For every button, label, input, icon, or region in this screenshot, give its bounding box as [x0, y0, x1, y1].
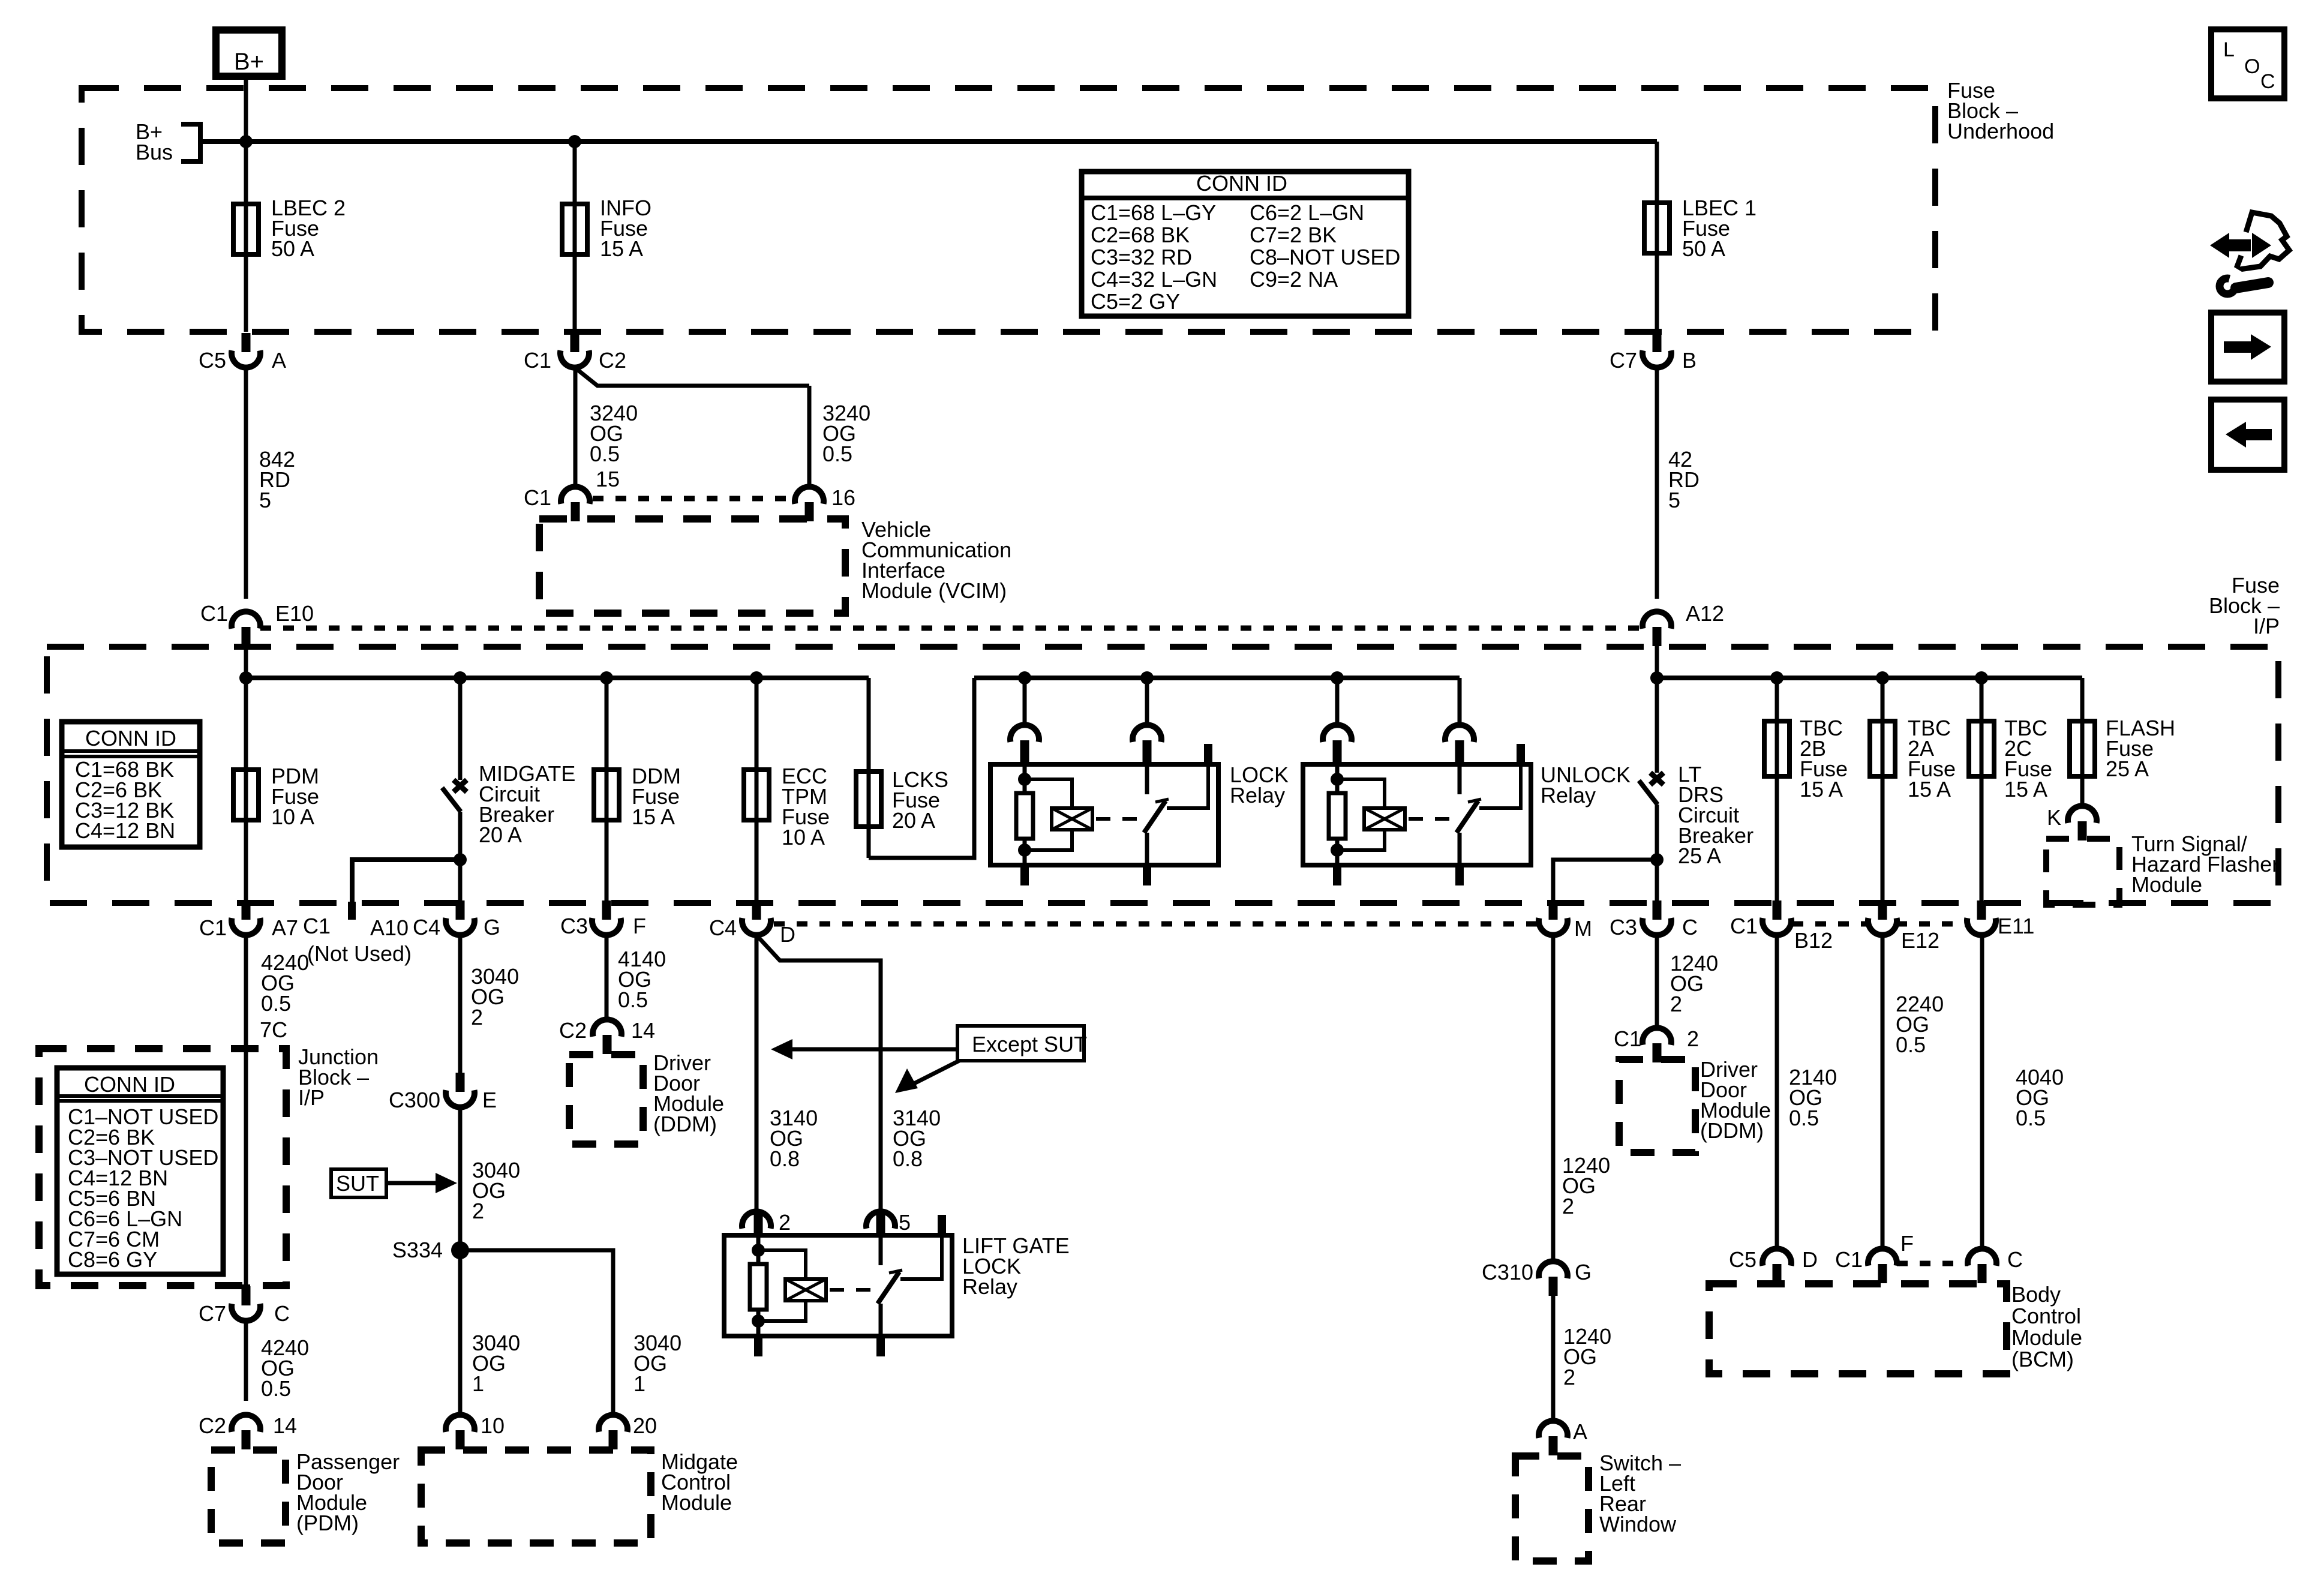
svg-text:0.5: 0.5	[590, 442, 620, 466]
svg-text:C3=32 RD: C3=32 RD	[1091, 245, 1192, 269]
svg-text:C2: C2	[199, 1413, 226, 1438]
svg-text:C300: C300	[389, 1088, 440, 1112]
svg-text:C5: C5	[1729, 1247, 1756, 1272]
svg-text:C7: C7	[199, 1301, 226, 1326]
svg-text:I/P: I/P	[298, 1085, 325, 1110]
svg-text:A7: A7	[272, 915, 298, 940]
svg-text:E12: E12	[1901, 928, 1939, 953]
svg-text:C2: C2	[559, 1018, 587, 1043]
svg-text:25 A: 25 A	[2106, 757, 2149, 781]
svg-text:C1: C1	[199, 915, 227, 940]
svg-text:2: 2	[1563, 1365, 1575, 1389]
svg-text:C1: C1	[200, 601, 228, 626]
svg-text:14: 14	[273, 1413, 297, 1438]
svg-text:2: 2	[779, 1210, 791, 1235]
svg-text:(Not Used): (Not Used)	[307, 941, 412, 966]
svg-text:K: K	[2047, 805, 2061, 830]
svg-text:O: O	[2244, 55, 2260, 78]
svg-text:C4: C4	[413, 915, 440, 939]
svg-text:0.8: 0.8	[770, 1146, 800, 1171]
svg-text:0.5: 0.5	[261, 1376, 291, 1401]
svg-text:C4=12 BN: C4=12 BN	[75, 818, 175, 843]
svg-text:I/P: I/P	[2253, 614, 2280, 638]
svg-text:C1=68 L–GY: C1=68 L–GY	[1091, 200, 1216, 225]
svg-text:15 A: 15 A	[1800, 777, 1843, 801]
svg-text:0.5: 0.5	[822, 442, 852, 466]
svg-text:2: 2	[1687, 1026, 1699, 1051]
svg-text:C7: C7	[1610, 348, 1637, 373]
svg-text:0.8: 0.8	[893, 1146, 923, 1171]
svg-text:C310: C310	[1482, 1260, 1533, 1284]
svg-text:C6=2 L–GN: C6=2 L–GN	[1250, 200, 1364, 225]
svg-text:Module (VCIM): Module (VCIM)	[861, 578, 1007, 603]
svg-text:Except SUT: Except SUT	[972, 1032, 1087, 1056]
svg-text:Body: Body	[2011, 1282, 2061, 1307]
svg-text:C3: C3	[560, 914, 588, 938]
svg-text:C5: C5	[199, 348, 226, 373]
svg-text:C8=6 GY: C8=6 GY	[68, 1247, 157, 1272]
svg-text:C4: C4	[709, 915, 737, 940]
svg-text:Underhood: Underhood	[1947, 119, 2054, 143]
svg-text:0.5: 0.5	[618, 987, 648, 1012]
svg-text:15 A: 15 A	[1908, 777, 1951, 801]
svg-text:CONN ID: CONN ID	[1196, 171, 1287, 196]
svg-text:Control: Control	[2011, 1304, 2081, 1328]
svg-text:5: 5	[259, 488, 271, 512]
svg-text:C9=2 NA: C9=2 NA	[1250, 267, 1338, 292]
svg-text:Relay: Relay	[1541, 783, 1596, 807]
svg-text:C: C	[2260, 70, 2275, 93]
svg-text:0.5: 0.5	[261, 991, 291, 1016]
svg-text:F: F	[633, 914, 646, 938]
svg-text:15: 15	[596, 467, 620, 491]
svg-text:20: 20	[633, 1413, 657, 1438]
svg-text:Bus: Bus	[136, 140, 173, 164]
svg-text:15 A: 15 A	[600, 236, 643, 261]
svg-text:Module: Module	[661, 1490, 732, 1515]
svg-text:C7=2 BK: C7=2 BK	[1250, 223, 1337, 247]
svg-text:10 A: 10 A	[782, 825, 825, 849]
svg-text:A10: A10	[370, 915, 409, 940]
svg-text:C: C	[2007, 1247, 2023, 1272]
svg-text:2: 2	[471, 1005, 483, 1029]
svg-text:50 A: 50 A	[1682, 236, 1725, 261]
svg-text:A: A	[1573, 1419, 1587, 1444]
svg-text:7C: 7C	[260, 1017, 287, 1042]
svg-text:CONN ID: CONN ID	[85, 726, 176, 751]
svg-text:E10: E10	[275, 601, 314, 626]
svg-text:20 A: 20 A	[892, 808, 935, 833]
svg-text:B12: B12	[1794, 928, 1833, 953]
svg-text:C1: C1	[524, 485, 551, 510]
svg-text:0.5: 0.5	[2016, 1106, 2046, 1130]
svg-text:C1: C1	[1835, 1247, 1863, 1272]
svg-text:5: 5	[899, 1210, 911, 1235]
svg-text:A12: A12	[1686, 601, 1724, 626]
svg-text:50 A: 50 A	[271, 236, 314, 261]
svg-text:1: 1	[472, 1371, 484, 1396]
svg-text:B: B	[1682, 348, 1697, 373]
svg-text:C2: C2	[599, 348, 626, 373]
svg-text:Relay: Relay	[1230, 783, 1285, 807]
svg-text:L: L	[2223, 38, 2235, 61]
svg-text:20 A: 20 A	[479, 822, 522, 847]
svg-text:Relay: Relay	[962, 1274, 1017, 1299]
svg-text:C4=32 L–GN: C4=32 L–GN	[1091, 267, 1217, 292]
svg-text:2: 2	[1670, 992, 1682, 1016]
svg-text:Window: Window	[1599, 1512, 1677, 1536]
svg-text:(DDM): (DDM)	[653, 1112, 717, 1136]
svg-text:0.5: 0.5	[1896, 1032, 1926, 1057]
svg-text:G: G	[484, 915, 500, 939]
svg-text:C1: C1	[303, 914, 331, 938]
svg-text:C2=68 BK: C2=68 BK	[1091, 223, 1190, 247]
svg-text:0.5: 0.5	[1789, 1106, 1819, 1130]
svg-text:F: F	[1900, 1231, 1914, 1256]
svg-text:Module: Module	[2011, 1325, 2082, 1350]
svg-text:15 A: 15 A	[632, 804, 675, 829]
svg-text:E: E	[482, 1088, 497, 1112]
svg-text:1: 1	[633, 1371, 645, 1396]
svg-text:Module: Module	[2131, 872, 2202, 897]
svg-text:10 A: 10 A	[271, 804, 314, 829]
svg-text:C8–NOT USED: C8–NOT USED	[1250, 245, 1400, 269]
svg-text:CONN ID: CONN ID	[84, 1072, 175, 1097]
svg-text:14: 14	[631, 1018, 655, 1043]
svg-text:B+: B+	[234, 49, 264, 75]
svg-text:15 A: 15 A	[2004, 777, 2047, 801]
svg-text:5: 5	[1668, 488, 1680, 512]
svg-text:M: M	[1574, 916, 1592, 941]
svg-text:C1: C1	[524, 348, 551, 373]
svg-text:D: D	[1802, 1247, 1818, 1272]
svg-text:(DDM): (DDM)	[1700, 1118, 1764, 1143]
svg-text:C: C	[274, 1301, 290, 1326]
svg-text:C: C	[1682, 915, 1698, 939]
svg-text:C1: C1	[1614, 1026, 1641, 1051]
svg-text:2: 2	[1562, 1194, 1574, 1218]
svg-text:10: 10	[481, 1413, 505, 1438]
svg-text:SUT: SUT	[336, 1171, 379, 1196]
svg-text:25 A: 25 A	[1678, 843, 1721, 868]
svg-text:C1: C1	[1730, 914, 1758, 938]
svg-text:(PDM): (PDM)	[296, 1511, 359, 1535]
svg-text:G: G	[1575, 1260, 1592, 1284]
svg-text:C5=2 GY: C5=2 GY	[1091, 289, 1180, 314]
svg-text:C3: C3	[1610, 915, 1637, 939]
svg-text:A: A	[272, 348, 286, 373]
svg-text:E11: E11	[1998, 914, 2034, 938]
svg-text:(BCM): (BCM)	[2011, 1347, 2074, 1371]
svg-text:16: 16	[831, 485, 855, 510]
svg-text:S334: S334	[392, 1238, 443, 1262]
svg-text:2: 2	[472, 1199, 484, 1223]
